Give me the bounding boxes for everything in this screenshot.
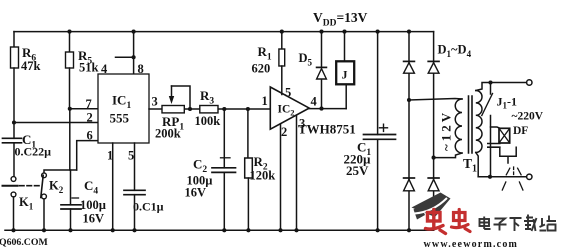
wire pin2	[14, 122, 98, 124]
svg-text:1: 1	[262, 94, 268, 108]
wire pin6 stub	[77, 141, 98, 170]
relay contact J1-1	[482, 83, 493, 177]
diode D3	[404, 178, 415, 191]
svg-text:16V: 16V	[83, 212, 105, 226]
svg-text:25V: 25V	[346, 163, 369, 178]
svg-text:DF: DF	[513, 125, 528, 137]
resistor R5	[66, 32, 74, 109]
char zi	[494, 219, 507, 231]
svg-text:0.C1µ: 0.C1µ	[133, 200, 164, 214]
svg-text:620: 620	[252, 62, 271, 76]
node C2 junction	[222, 107, 226, 111]
svg-text:TWH8751: TWH8751	[298, 122, 356, 137]
node DF return junction	[488, 175, 492, 179]
node C2 ground	[222, 228, 226, 232]
svg-text:K1: K1	[19, 195, 34, 212]
potentiometer RP1	[162, 86, 190, 113]
watermark bug 1	[426, 210, 446, 234]
terminal 220V bottom	[527, 174, 532, 179]
svg-text:100µ: 100µ	[80, 198, 106, 212]
node R2 junction	[246, 107, 250, 111]
terminal 220V top	[527, 80, 532, 85]
node AC2 junction	[432, 156, 436, 160]
wire primary bottom	[476, 153, 478, 177]
wire primary top to terminal	[476, 83, 527, 91]
svg-text:5: 5	[128, 149, 134, 163]
svg-text:Q606.COM: Q606.COM	[0, 237, 48, 248]
capacitor C4	[61, 170, 81, 230]
svg-text:200k: 200k	[155, 127, 181, 141]
svg-text:C4: C4	[84, 178, 98, 197]
transformer T1 core	[469, 96, 473, 153]
wire AC1 to transformer secondary top	[409, 99, 462, 101]
node K2 ground	[42, 228, 46, 232]
diode D5	[317, 32, 327, 109]
svg-text:6: 6	[87, 129, 93, 143]
char zai	[524, 215, 537, 232]
node C1 rail	[376, 30, 380, 34]
node pin1 ground	[111, 228, 115, 232]
node pin7 junction	[68, 107, 72, 111]
switch K1	[3, 177, 18, 231]
wire IC2 pin4 output	[309, 108, 346, 110]
node C4 ground	[68, 228, 72, 232]
node pin2-left junction	[12, 120, 16, 124]
node pin8 rail	[132, 30, 136, 34]
transformer T1 secondary winding	[455, 99, 462, 153]
watermark text dianzi xiazaizhan	[480, 215, 557, 232]
capacitor C1	[3, 138, 22, 176]
svg-text:4: 4	[101, 62, 108, 76]
watermark graduation cap	[412, 193, 451, 220]
capacitor C1 220u filter	[364, 32, 396, 231]
svg-text:5: 5	[285, 86, 291, 100]
svg-text:47k: 47k	[21, 59, 41, 73]
svg-text:120k: 120k	[250, 169, 276, 183]
svg-text:0.C22µ: 0.C22µ	[15, 145, 52, 159]
svg-text:555: 555	[110, 111, 130, 126]
node heater dashes	[502, 167, 523, 190]
wire bottom 220V line	[478, 176, 526, 178]
node D5 rail	[319, 30, 323, 34]
svg-text:C2: C2	[193, 157, 207, 176]
node D5 junction	[319, 107, 323, 111]
svg-text:51k: 51k	[79, 61, 99, 75]
svg-text:2: 2	[87, 111, 93, 125]
node pin5 ground	[132, 228, 136, 232]
op-amp U1 timer IC1 555 box	[98, 74, 149, 143]
svg-text:R1: R1	[258, 44, 272, 63]
svg-text:~12V: ~12V	[439, 110, 454, 151]
wire DF hook stub	[507, 156, 509, 163]
wire top VDD rail	[14, 31, 434, 33]
svg-text:3: 3	[152, 95, 158, 109]
node relay rail	[342, 30, 346, 34]
svg-text:D1~D4: D1~D4	[438, 43, 472, 60]
svg-text:~220V: ~220V	[512, 111, 544, 123]
wire rail to C1	[13, 123, 15, 139]
node RP1 wiper junction	[188, 107, 192, 111]
node C1 ground	[376, 228, 380, 232]
node pin4 junction	[132, 55, 136, 59]
op-amp U2 IC2 TWH8751 triangle	[270, 87, 309, 129]
node R2 ground	[246, 228, 250, 232]
node AC1 junction	[407, 98, 411, 102]
wire pin8 column	[133, 32, 135, 74]
wire pin3 to IC2 pin1	[149, 108, 270, 110]
svg-text:4: 4	[311, 95, 318, 109]
char dian	[480, 219, 490, 226]
svg-text:T1: T1	[463, 156, 477, 175]
wire bottom ground rail	[5, 229, 434, 231]
relay coil J	[336, 32, 354, 109]
svg-text:7: 7	[86, 97, 92, 111]
transformer T1 primary winding	[476, 91, 482, 153]
wire left rail upper	[13, 32, 15, 47]
diode D4	[428, 178, 439, 191]
resistor R6	[11, 47, 19, 123]
node R5 top	[67, 30, 71, 34]
node pin3 ground	[294, 228, 298, 232]
svg-text:www.eeworm.com: www.eeworm.com	[424, 239, 519, 249]
resistor R1	[279, 32, 285, 95]
wire D2 D4 column	[433, 32, 435, 231]
wire DF return hook	[500, 147, 516, 156]
svg-text:J1-1: J1-1	[497, 95, 518, 111]
capacitor C2	[212, 109, 236, 230]
wire DF box top stub	[491, 127, 501, 128]
node D1 rail	[407, 30, 411, 34]
wire pin1 column	[112, 143, 114, 230]
watermark bug 2	[452, 210, 471, 232]
wire pin7	[70, 108, 98, 110]
resistor R3	[200, 106, 218, 113]
wire dashed link K1-K2	[20, 185, 40, 187]
wire DF plug plates	[488, 144, 500, 148]
node contact junction top	[488, 80, 492, 84]
resistor R2	[245, 109, 253, 230]
capacitor C3 0.01u on pin5	[124, 143, 145, 230]
node pin2 ground	[278, 228, 282, 232]
diode D1	[404, 61, 415, 73]
svg-text:2: 2	[281, 125, 287, 139]
wire D1 D3 column	[408, 32, 410, 231]
diode D2	[428, 61, 439, 73]
char zhan	[540, 216, 557, 231]
svg-text:R3: R3	[200, 88, 214, 107]
svg-text:100k: 100k	[195, 114, 221, 128]
connector DF	[499, 128, 510, 143]
svg-text:VDD=13V: VDD=13V	[313, 10, 368, 29]
svg-text:8: 8	[138, 62, 144, 76]
svg-text:16V: 16V	[185, 186, 207, 200]
char xia	[510, 218, 522, 231]
svg-text:D5: D5	[299, 51, 313, 68]
svg-text:K2: K2	[49, 179, 64, 196]
wire IC2 pin2	[280, 124, 282, 230]
switch K2	[41, 170, 77, 230]
node K1 ground	[11, 228, 15, 232]
wire IC2 pin3	[296, 115, 298, 230]
wire pin4 stub	[116, 56, 134, 58]
wire R5 column down to K2 horizontal	[69, 109, 71, 170]
svg-text:1: 1	[107, 149, 113, 163]
wire secondary bottom to AC2	[434, 153, 462, 158]
node D3 ground	[407, 228, 411, 232]
svg-text:J: J	[342, 68, 348, 82]
node R1 rail	[280, 30, 284, 34]
